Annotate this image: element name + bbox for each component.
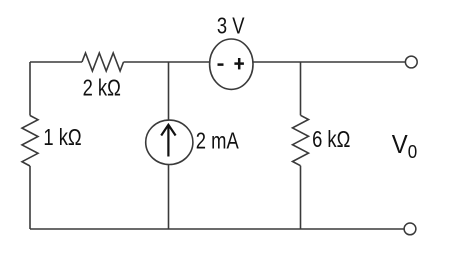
wire left branch upper [29, 62, 31, 116]
label 2 mA [196, 129, 239, 154]
current source I1 body [146, 120, 193, 164]
wire right branch upper [300, 62, 302, 115]
wire top rail right of R1 [124, 61, 406, 63]
current source I1 arrow [161, 125, 175, 157]
svg-text:3 V: 3 V [217, 14, 245, 39]
label 1 kΩ [43, 125, 81, 150]
svg-text:2 mA: 2 mA [196, 129, 239, 154]
label V0 [392, 130, 418, 162]
resistor R1 2 kΩ [82, 53, 124, 71]
svg-text:6 kΩ: 6 kΩ [312, 127, 350, 152]
label 3 V [217, 14, 245, 39]
wire middle branch upper [168, 62, 170, 121]
terminal node top right [405, 56, 417, 68]
label 6 kΩ [312, 127, 350, 152]
wire top rail [30, 61, 82, 63]
voltage source V1 minus sign [218, 63, 224, 66]
svg-text:1 kΩ: 1 kΩ [43, 125, 81, 150]
voltage source V1 body [210, 39, 253, 89]
label 2 kΩ [83, 75, 121, 100]
wire bottom rail [30, 228, 404, 230]
resistor R3 6 kΩ [293, 115, 309, 165]
wire left branch lower [29, 166, 31, 229]
resistor R2 1 kΩ [22, 116, 38, 167]
voltage source V1 plus sign [234, 58, 244, 69]
svg-text:V0: V0 [392, 130, 418, 162]
wire right branch lower [300, 166, 302, 229]
svg-text:2 kΩ: 2 kΩ [83, 75, 121, 100]
terminal node bottom right [404, 223, 416, 235]
wire middle branch lower [168, 164, 170, 230]
